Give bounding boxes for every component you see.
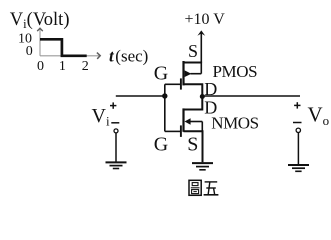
svg-text:2: 2 xyxy=(82,59,89,74)
svg-text:0: 0 xyxy=(37,59,44,74)
svg-text:0: 0 xyxy=(26,44,33,59)
svg-text:G: G xyxy=(154,134,168,156)
svg-text:1: 1 xyxy=(59,59,66,74)
svg-text:S: S xyxy=(187,134,198,156)
svg-text:PMOS: PMOS xyxy=(213,62,258,81)
svg-text:D: D xyxy=(204,79,217,99)
svg-text:NMOS: NMOS xyxy=(211,113,259,132)
svg-text:G: G xyxy=(154,63,168,85)
svg-text:(sec): (sec) xyxy=(115,47,148,66)
svg-text:S: S xyxy=(188,41,198,61)
svg-text:+10 V: +10 V xyxy=(185,11,226,28)
